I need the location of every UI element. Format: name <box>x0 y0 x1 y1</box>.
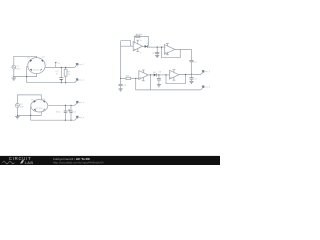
CIRCUIT 3 (right op-amp block) <box>119 34 211 91</box>
svg-text:http://circuitlab.com/c/mpq44t: http://circuitlab.com/c/mpq44t9hdyb64 <box>53 160 104 164</box>
wire bottom out rail <box>151 89 201 91</box>
op-amp U3 <box>139 71 148 80</box>
wire input loop rectangle <box>121 41 131 47</box>
capacitor C6 to ground <box>190 78 194 82</box>
plus mark C3 <box>68 109 70 111</box>
diode D3 (lower-left) <box>30 69 32 71</box>
wire to op-amp U1 input <box>121 45 134 47</box>
terminal flag out4 <box>75 116 85 121</box>
ground GND3 <box>155 55 159 57</box>
junction dot left drop <box>26 76 27 77</box>
polarity mark on C1 <box>60 79 62 81</box>
junction dot C8 <box>158 74 159 75</box>
junction dot source bottom c2 <box>17 115 18 116</box>
wire input rail <box>120 41 122 84</box>
wire top from V1 to bridge top <box>14 56 37 65</box>
capacitor C4 to ground <box>155 47 159 55</box>
svg-text:10V: 10V <box>16 68 20 70</box>
wire bottom rail <box>27 82 75 84</box>
wire bottom row input <box>121 77 126 79</box>
wire bottom AC to bridge bottom <box>14 74 37 77</box>
op-amp U1 <box>133 42 142 51</box>
feedback loop U4 <box>166 75 186 84</box>
ground GND6 <box>157 85 161 87</box>
junction dot U2 input <box>161 47 162 48</box>
capacitor C2 <box>64 105 68 120</box>
junction dot U4 out <box>185 74 186 75</box>
ground GND5 <box>119 89 123 91</box>
svg-text:-: - <box>165 45 166 49</box>
supply bars U2 <box>166 44 169 55</box>
junction dot rail bottom <box>120 78 121 79</box>
supply bar below U1 <box>136 49 139 52</box>
wire left node down to bottom rail <box>26 66 29 83</box>
svg-text:R2 10k: R2 10k <box>136 34 144 36</box>
junction dot U4 fb left <box>165 74 166 75</box>
junction dot C4 <box>157 47 158 48</box>
feedback loop U1 with resistor R2 <box>134 36 148 46</box>
svg-text:D7 D8: D7 D8 <box>36 108 43 110</box>
terminal flag out6 <box>201 85 211 90</box>
ground GND2 <box>15 117 19 119</box>
ground GND4 <box>189 81 193 83</box>
junction node dots <box>65 105 72 121</box>
supply bars U3 <box>142 70 145 81</box>
wire R3 to U3 <box>131 77 139 79</box>
wire U1 output <box>142 45 144 47</box>
svg-text:D3 D4: D3 D4 <box>33 69 40 71</box>
op-amp U2 <box>164 45 174 55</box>
junction dot out1 <box>191 74 192 75</box>
capacitor C7 on rail <box>119 84 123 89</box>
voltage source V2 <box>15 103 19 107</box>
svg-text:out_5: out_5 <box>205 70 211 73</box>
terminal flag out2 <box>75 78 85 83</box>
svg-text:10V: 10V <box>20 107 24 109</box>
svg-text:out_3: out_3 <box>79 101 85 104</box>
capacitor C1 (polarized) <box>59 67 63 82</box>
logo wave LAB <box>3 160 34 165</box>
wire output top <box>45 66 75 68</box>
junction dot left drop c2 <box>30 115 31 116</box>
terminal flag out1 <box>75 63 85 68</box>
supply bars U4 <box>173 70 176 81</box>
wire vertical right down <box>191 49 193 60</box>
diode D1 (upper-left) <box>30 60 32 63</box>
ground GND1 <box>12 78 16 80</box>
svg-text:out_4: out_4 <box>79 116 85 119</box>
supply bar above U1 <box>136 40 139 44</box>
wire left node down to bottom rail <box>30 106 33 120</box>
terminal flag out3 <box>75 101 85 106</box>
bridge rectifier B1 ring <box>28 58 45 74</box>
diode D11 <box>154 74 157 77</box>
wire U4 output to out flag <box>179 74 201 76</box>
capacitor C5 (series) <box>190 60 194 61</box>
bridge rectifier B2 ring <box>31 100 48 112</box>
wire diode to U4 <box>157 74 170 76</box>
svg-text:-: - <box>139 71 140 75</box>
diode D4 (lower-right) <box>40 69 42 71</box>
svg-text:out_2: out_2 <box>79 78 85 81</box>
svg-text:out_1: out_1 <box>79 63 85 66</box>
node flag <box>55 62 61 68</box>
op-amp U4 <box>170 70 179 79</box>
junction dot U3 input <box>135 78 136 79</box>
diode D8 (lower-right) <box>43 109 45 111</box>
svg-text:100u: 100u <box>56 112 62 114</box>
wire U3 output <box>148 74 153 76</box>
junction node dots <box>61 67 66 83</box>
resistor R3 <box>126 77 131 79</box>
junction dot source bottom <box>13 76 14 77</box>
resistor R2 <box>136 35 140 38</box>
diode D2 (upper-right) <box>41 60 43 62</box>
diode D7 (lower-left) <box>34 109 36 111</box>
svg-text:out_6: out_6 <box>205 86 211 89</box>
wire source bottom <box>13 69 15 76</box>
wire source bottom <box>16 107 18 115</box>
CIRCUIT 1 (top-left bridge rectifier) <box>12 56 85 83</box>
junction dot U3 output <box>150 74 151 75</box>
capacitor C8 to ground <box>157 75 161 85</box>
CIRCUIT 2 (bottom-left bridge rectifier) <box>15 95 85 121</box>
footer bar <box>0 156 220 165</box>
wire diode to U2 input <box>148 45 165 48</box>
wire bottom rail <box>31 119 75 121</box>
feedback loop U3 <box>136 75 151 90</box>
wire U2 output to right <box>175 48 192 50</box>
wire bottom AC to bridge bottom <box>17 112 41 115</box>
wire top from V2 to bridge top <box>17 95 41 104</box>
diode D10 <box>145 45 148 48</box>
diode D6 (upper-right) <box>43 101 45 103</box>
terminal flag out5 <box>201 70 211 75</box>
FOOTER <box>0 156 220 165</box>
diode D5 (upper-left) <box>34 101 36 104</box>
voltage source V1 <box>12 65 16 69</box>
wire output top <box>48 104 75 106</box>
resistor R1 <box>64 67 67 82</box>
wire vertical continues <box>191 62 193 78</box>
feedback loop U2 <box>162 47 181 58</box>
svg-text:LAB: LAB <box>25 160 34 165</box>
svg-text:-: - <box>170 71 171 75</box>
capacitor C3 (polarized) <box>69 105 73 120</box>
